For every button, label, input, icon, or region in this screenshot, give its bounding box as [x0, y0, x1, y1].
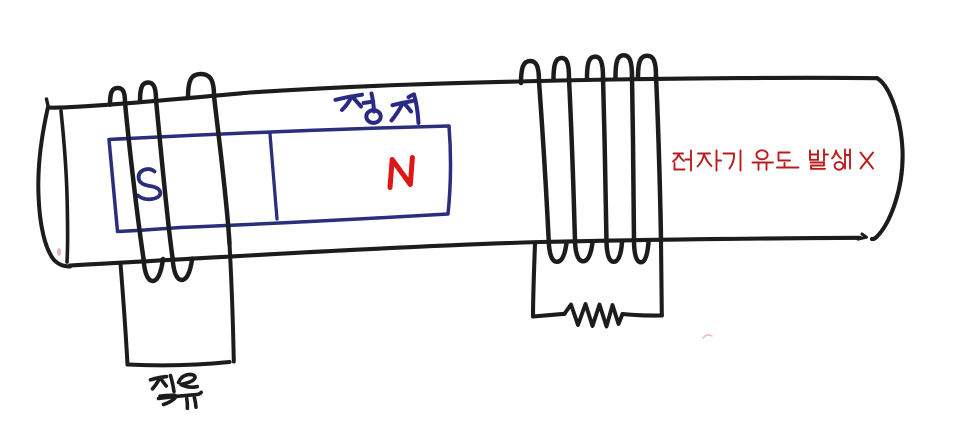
- tube top line: [48, 78, 877, 108]
- syllable 자: [698, 153, 710, 155]
- tube right cap arc: [872, 78, 903, 239]
- tube bottom line end arrow flick: [858, 234, 867, 239]
- wire: resistor bottom left segment: [533, 314, 565, 317]
- right coil leg 4: [632, 77, 634, 242]
- right coil loop 1 (hump): [521, 61, 539, 83]
- left coil bottom hook 1: [144, 259, 164, 282]
- wire: DC source bottom: [128, 362, 230, 365]
- syllable 유: [756, 150, 767, 159]
- right coil bottom hook 2: [575, 242, 593, 261]
- syllable 생: [832, 151, 836, 159]
- right coil leg 5: [656, 76, 661, 241]
- syllable 전: [674, 153, 684, 155]
- wire: resistor loop right lead: [659, 241, 664, 315]
- wire: resistor bottom right segment: [623, 314, 662, 316]
- right coil leg 1: [539, 82, 549, 243]
- magnet label S: [138, 169, 160, 199]
- letter X: [861, 153, 874, 169]
- right coil loop 2 (hump): [554, 58, 570, 80]
- syllable 발: [809, 151, 811, 160]
- tube left cap inner edge: [61, 111, 68, 262]
- label "정지" (handwritten, navy): [336, 94, 419, 124]
- tube bottom line: [70, 238, 860, 266]
- label "전자기 유도 발생 X" (typed, red): [673, 150, 873, 171]
- magnet label N: [390, 158, 412, 188]
- left coil loop 3 (hump): [188, 74, 214, 98]
- label "직류" (handwritten, black): [151, 374, 202, 408]
- left coil leg C: [214, 96, 230, 244]
- right coil loop 5 (hump): [638, 56, 656, 77]
- wire: resistor loop left lead: [533, 244, 535, 317]
- resistor zigzag: [565, 304, 623, 327]
- syllable 도: [779, 153, 791, 161]
- tube left cap outer arc: [38, 107, 70, 267]
- right coil bottom hook 3: [607, 242, 623, 262]
- left coil loop 2 (hump): [140, 82, 156, 101]
- syllable 기: [724, 154, 735, 169]
- magnet pole divider: [270, 134, 277, 219]
- right coil loop 4 (hump): [616, 55, 633, 77]
- right coil leg 3: [603, 78, 607, 242]
- left coil bottom hook 2: [173, 258, 193, 281]
- faint pink smudge: [703, 335, 712, 338]
- right coil bottom hook 4: [634, 242, 649, 263]
- faint magenta smudge at cap bottom: [57, 248, 61, 256]
- tube top-left corner tick: [47, 99, 49, 108]
- right coil bottom hook 1: [549, 243, 567, 262]
- left coil leg B: [156, 100, 173, 258]
- magnet body outline: [109, 126, 451, 232]
- right coil loop 3 (hump): [587, 57, 603, 78]
- right coil leg 2: [569, 79, 575, 243]
- left coil loop 1 (hump): [110, 88, 125, 105]
- left coil leg A: [125, 103, 144, 259]
- wire: DC source left lead: [121, 264, 128, 365]
- wire: DC source right lead: [230, 244, 234, 362]
